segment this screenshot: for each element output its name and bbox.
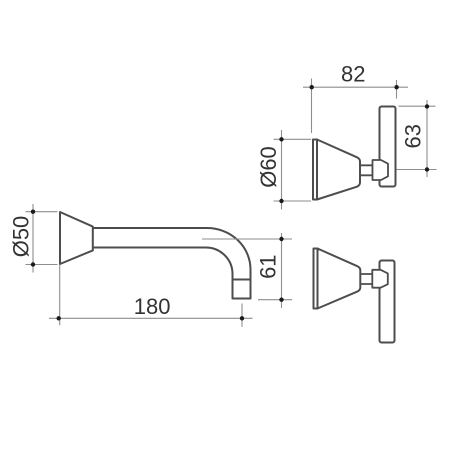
handle A stem	[359, 165, 373, 175]
tick 82 left	[310, 85, 314, 89]
tick 63 top	[425, 104, 429, 108]
dim 180 line	[49, 317, 253, 319]
dim 82 ext right	[396, 80, 398, 99]
dim 61 ext bottom	[258, 299, 292, 301]
tick 61 top	[279, 237, 283, 241]
tick D60 top	[279, 137, 283, 141]
dim 82 line	[303, 86, 408, 88]
dim 180 ext left	[59, 265, 61, 325]
svg-text:Ø50: Ø50	[9, 216, 34, 258]
handle B lever bar	[380, 261, 395, 343]
tick 180 right	[240, 316, 244, 320]
dim D50 ext top	[26, 211, 58, 213]
handle B connector	[372, 270, 388, 288]
svg-text:61: 61	[256, 254, 281, 278]
dim 61 line	[281, 233, 283, 308]
tick D50 bottom	[31, 262, 35, 266]
handle A connector	[373, 160, 389, 180]
svg-text:180: 180	[134, 294, 171, 319]
dim 63 line	[426, 100, 428, 177]
tick 180 left	[57, 316, 61, 320]
spout outlet joint line	[233, 279, 251, 281]
svg-text:82: 82	[341, 62, 365, 87]
svg-text:Ø60: Ø60	[256, 146, 281, 188]
dim 180 ext right	[241, 304, 243, 327]
handle B cone body	[318, 249, 361, 309]
handle B cone rim	[314, 249, 318, 309]
tick D50 top	[31, 210, 35, 214]
dim D60 ext bottom	[274, 200, 312, 202]
handle A lever bar	[380, 107, 396, 187]
dim 82 ext left	[311, 79, 313, 134]
tick 82 right	[394, 85, 398, 89]
dim D60 ext top	[274, 138, 312, 140]
handle A cone body	[317, 140, 360, 200]
handle B stem	[359, 274, 373, 284]
dim 61 ext top	[202, 238, 292, 240]
dim D50 line	[32, 204, 34, 273]
dim 63 ext top	[399, 105, 436, 107]
dim D50 ext bottom	[26, 264, 58, 266]
handle A cone rim	[313, 140, 317, 200]
svg-text:63: 63	[401, 124, 426, 148]
dim D60 line	[281, 130, 283, 210]
tick D60 bottom	[279, 199, 283, 203]
spout tube	[93, 228, 251, 299]
tick 61 bottom	[279, 298, 283, 302]
spout wall cone	[60, 212, 93, 264]
tick 63 bottom	[425, 167, 429, 171]
dim 63 ext bottom	[397, 169, 437, 171]
